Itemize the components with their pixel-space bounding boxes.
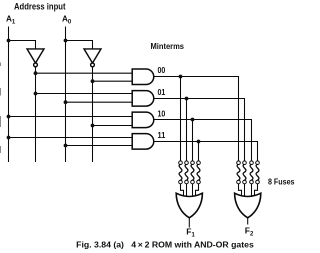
wire drop 10 to F1 fuse <box>192 120 194 162</box>
wire row1 A1' to AND 00 <box>36 72 133 74</box>
fuse 2 (F1 col 2) <box>185 161 189 199</box>
svg-text:Fig. 3.84 (a) 4 × 2 ROM with: Fig. 3.84 (a) 4 × 2 ROM with AND-OR gate… <box>76 240 254 250</box>
node junction 10 to F1 column <box>191 118 195 122</box>
fuse 3 (F1 col 3) <box>191 161 195 199</box>
svg-text:A1: A1 <box>6 14 16 25</box>
wire A1' vertical bus <box>35 67 37 162</box>
svg-text:A0: A0 <box>62 14 72 25</box>
node junction 00 to F1 column <box>179 75 183 79</box>
fuse 6 (F2 col 2) <box>243 161 247 199</box>
and-gate G10 minterm 10 <box>132 112 154 128</box>
fuse 7 (F2 col 3) <box>250 161 254 199</box>
wire row8 A0 to AND 11 <box>66 145 133 147</box>
inverter U1 (A1 NOT) <box>27 49 44 67</box>
svg-text:11: 11 <box>158 131 166 140</box>
svg-text:F2: F2 <box>245 225 254 237</box>
wire minterm 11 output row <box>154 142 258 162</box>
and-gate G11 minterm 11 <box>132 134 154 150</box>
node junction row4 <box>64 100 68 104</box>
wire minterm 00 output row <box>154 77 239 162</box>
or-gate G6 output F2 <box>235 193 261 218</box>
node junction A1 branch <box>7 39 11 43</box>
wire row5 A1 to AND 10 <box>9 116 133 118</box>
wire minterm 01 output row <box>154 99 245 162</box>
node junction row6 <box>91 124 95 128</box>
node junction row8 <box>64 144 68 148</box>
node junction row7 <box>7 136 11 140</box>
wire A1 branch to inverter U1 <box>9 41 36 49</box>
wire minterm 10 output row <box>154 120 252 162</box>
and-gate G01 minterm 01 <box>132 91 154 107</box>
node junction 11 to F1 column <box>197 140 201 144</box>
fuse 1 (F1 col 1) <box>179 161 184 199</box>
svg-text:Minterms: Minterms <box>151 41 185 51</box>
node junction row5 <box>7 115 11 119</box>
or-gate G5 output F1 <box>176 193 202 218</box>
svg-text:00: 00 <box>158 66 166 75</box>
wire row3 A1' to AND 01 <box>36 93 133 95</box>
svg-text:Address input: Address input <box>14 1 66 11</box>
wire drop 01 to F1 fuse <box>186 99 188 162</box>
node junction A0 branch <box>64 39 68 43</box>
wire drop 00 to F1 fuse <box>180 77 182 162</box>
and-gate G00 minterm 00 <box>132 69 154 85</box>
node junction 01 to F1 column <box>185 97 189 101</box>
wire F2 output <box>247 218 249 225</box>
node junction row1 <box>34 71 38 75</box>
inverter U2 (A0 NOT) <box>84 49 101 67</box>
fuse 5 (F2 col 1) <box>237 161 242 199</box>
wire row7 A1 to AND 11 <box>9 137 133 139</box>
wire A0 branch to inverter U2 <box>66 41 93 49</box>
wire row4 A0 to AND 01 <box>66 101 133 103</box>
wire row2 A0' to AND 00 <box>93 80 133 82</box>
wire row6 A0' to AND 10 <box>93 125 133 127</box>
svg-text:F1: F1 <box>186 226 195 238</box>
wire F1 output <box>188 218 190 228</box>
svg-text:8 Fuses: 8 Fuses <box>268 176 295 186</box>
fuse 4 (F1 col 4) <box>196 161 201 199</box>
wire A0' vertical bus <box>92 67 94 162</box>
svg-text:10: 10 <box>158 109 166 118</box>
wire A0 vertical bus <box>65 27 67 163</box>
svg-text:01: 01 <box>158 88 166 97</box>
wire drop 11 to F1 fuse <box>198 142 200 162</box>
node junction row2 <box>91 79 95 83</box>
wire A1 vertical bus <box>8 27 10 163</box>
fuse 8 (F2 col 4) <box>255 161 260 199</box>
node junction row3 <box>34 92 38 96</box>
wire scan-artifact marks left edge <box>0 63 2 154</box>
